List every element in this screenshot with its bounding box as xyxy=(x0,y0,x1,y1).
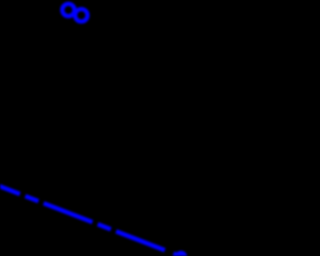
final short dash xyxy=(174,254,182,256)
infinity symbol left loop xyxy=(62,4,74,16)
dashed line xyxy=(0,175,166,250)
endpoint dot xyxy=(175,251,187,256)
infinity symbol right loop xyxy=(75,9,87,21)
